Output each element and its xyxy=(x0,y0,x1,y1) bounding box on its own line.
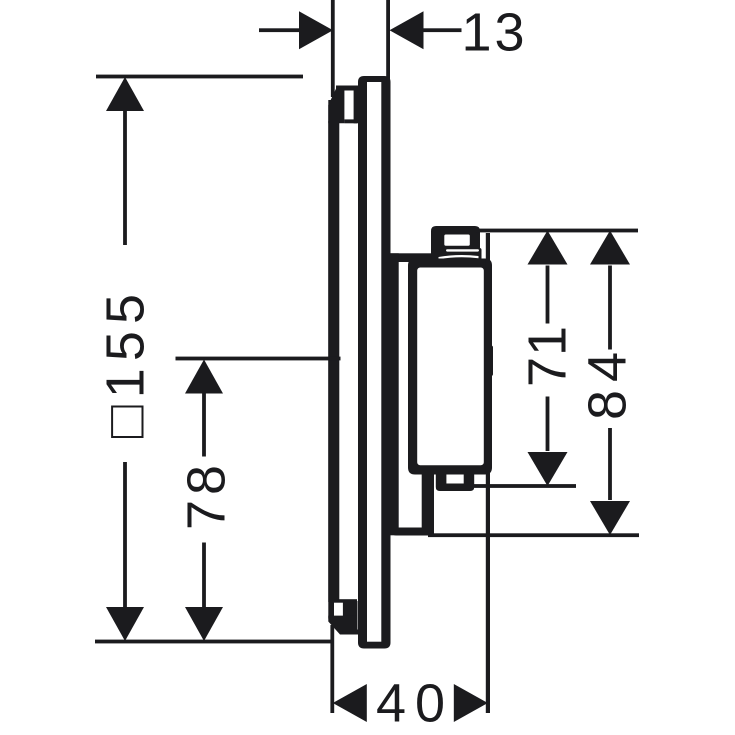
svg-text:71: 71 xyxy=(518,326,578,387)
